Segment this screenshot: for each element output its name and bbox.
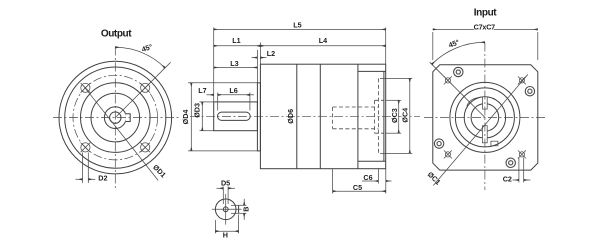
rear section bottom line (358, 160, 386, 162)
keyway face line (238, 205, 240, 213)
output shaft outline (214, 102, 258, 131)
shaft keyway slot (218, 112, 251, 120)
keyway extension lines (217, 93, 219, 111)
rear section top line (358, 70, 386, 72)
dimension L2 (252, 49, 276, 58)
tapped hole 225deg (444, 150, 452, 158)
extension line body right (385, 28, 387, 65)
hidden bore B top (375, 99, 384, 101)
svg-text:ØD6: ØD6 (286, 109, 295, 124)
dimension C5 (333, 183, 386, 192)
C2 extension lines (518, 158, 520, 183)
svg-text:L3: L3 (230, 59, 238, 68)
mount hole 300deg (506, 158, 515, 167)
mount hole 120deg (454, 67, 463, 76)
hidden bore A left face (332, 107, 334, 129)
svg-text:D2: D2 (98, 173, 107, 182)
svg-text:D5: D5 (221, 179, 230, 188)
dimension C7xC7 (433, 22, 538, 31)
C7xC7 extension lines (432, 32, 434, 60)
C5 extension line (332, 169, 334, 194)
body joint line 1 (296, 64, 298, 169)
svg-text:ØD4: ØD4 (181, 110, 190, 125)
svg-text:B: B (242, 206, 251, 211)
dimension L5 (214, 21, 386, 30)
svg-text:C5: C5 (353, 183, 362, 192)
mount hole 30deg (525, 87, 534, 96)
input flange square with chamfers (433, 65, 538, 170)
dimension B (242, 199, 251, 220)
output shaft hub circle (104, 107, 126, 129)
detail horizontal centerline (212, 208, 242, 210)
rear inner face line (383, 71, 385, 161)
dimension C2 (503, 175, 531, 184)
svg-text:L6: L6 (229, 86, 237, 95)
45 degree dimension arc (115, 47, 165, 68)
bolt hole top-right (140, 83, 150, 93)
svg-text:L1: L1 (232, 36, 240, 45)
center hole circle (110, 112, 121, 123)
hidden bore A bottom (333, 128, 379, 130)
clamp slot bottom (482, 126, 487, 143)
svg-text:45°: 45° (140, 42, 153, 54)
clamp collar circle C3 (464, 97, 505, 138)
svg-text:Input: Input (474, 7, 498, 18)
diameter D3 extension lines (200, 101, 214, 103)
D2 dimension line (76, 178, 83, 180)
shaft keyway tab (126, 114, 131, 122)
svg-text:L5: L5 (293, 21, 301, 30)
135deg radial line (430, 62, 485, 117)
45 degree radial line (115, 62, 170, 117)
clamp tab bottom-right (491, 141, 498, 146)
output pilot circle D4 (81, 83, 151, 153)
svg-text:ØC4: ØC4 (401, 108, 410, 123)
input horizontal centerline (424, 116, 546, 118)
dimension C4 (401, 78, 410, 153)
collar bump arc (467, 97, 483, 106)
output flange body circle (65, 67, 166, 168)
C6 extension lines (377, 169, 379, 184)
svg-text:L2: L2 (267, 49, 275, 58)
svg-text:ØD3: ØD3 (192, 103, 201, 118)
svg-text:L4: L4 (319, 36, 327, 45)
D2 extension lines (82, 153, 84, 184)
hidden register C4 line (377, 78, 379, 153)
dimension D5 (217, 179, 236, 189)
diameter C1 leader line (433, 74, 528, 185)
dimension L7 (198, 86, 213, 95)
svg-text:H: H (223, 230, 228, 239)
D5 extension lines (222, 187, 224, 205)
clamp slot top (483, 97, 488, 109)
svg-text:L7: L7 (198, 86, 206, 95)
tapped hole 315deg (518, 150, 526, 158)
svg-text:45°: 45° (447, 37, 460, 49)
input 45 degree dimension arc (432, 42, 485, 64)
detail vertical centerline (225, 194, 227, 225)
vertical centerline (114, 47, 116, 191)
dimension D3 (192, 102, 202, 131)
dimension L4 (260, 36, 385, 46)
shaft section circle (215, 199, 236, 220)
dimension D4 (181, 83, 192, 151)
hidden bore B left face (374, 100, 376, 133)
svg-text:C6: C6 (363, 173, 372, 182)
input bore circle (471, 104, 499, 132)
bolt hole bottom-left (81, 143, 91, 153)
svg-text:C7xC7: C7xC7 (474, 22, 496, 31)
extension line boss face (256, 50, 258, 83)
svg-text:ØC3: ØC3 (390, 108, 399, 123)
dimension H (215, 230, 238, 239)
tapped hole 45deg (518, 76, 526, 84)
body joint line 2 (319, 64, 321, 169)
horizontal centerline (53, 117, 179, 119)
middle centerline (190, 115, 420, 117)
hidden bore A top (333, 106, 379, 108)
dimension C6 (362, 173, 392, 182)
bolt circle (centerline) (73, 75, 158, 160)
hidden bore B bottom (375, 132, 384, 134)
mount hole 210deg (434, 139, 443, 148)
bolt hole top-left (81, 83, 91, 93)
dimension L6 (218, 86, 254, 95)
output pilot boss (257, 83, 260, 151)
H extension lines (214, 220, 216, 233)
diameter D1 leader line (83, 85, 158, 180)
diameter D4 extension lines (188, 82, 258, 84)
svg-text:ØC1: ØC1 (426, 170, 443, 187)
keyway slot centerline (222, 115, 246, 117)
input pilot circle (455, 88, 514, 147)
gearbox body outline (260, 64, 385, 169)
dimension L1 (214, 36, 261, 46)
dimension C3 (390, 100, 399, 133)
extension line shaft end (213, 28, 215, 102)
extension line body front face (259, 43, 261, 65)
svg-text:C2: C2 (503, 175, 512, 184)
diameter C3 extension lines (386, 99, 401, 101)
diameter C4 extension lines (380, 77, 412, 79)
output register circle (91, 93, 140, 142)
rear section joint line (357, 64, 359, 169)
keyway side lines (231, 204, 246, 206)
dimension L3 (214, 59, 258, 68)
input vertical centerline (484, 43, 486, 191)
svg-text:Output: Output (101, 29, 132, 40)
center boss circle D5 (223, 207, 228, 212)
svg-text:ØD1: ØD1 (151, 163, 168, 180)
bolt hole bottom-right (140, 143, 150, 153)
tapped hole 135deg (444, 76, 452, 84)
input register circle C4 (450, 82, 520, 152)
output flange outer circle (59, 61, 172, 174)
